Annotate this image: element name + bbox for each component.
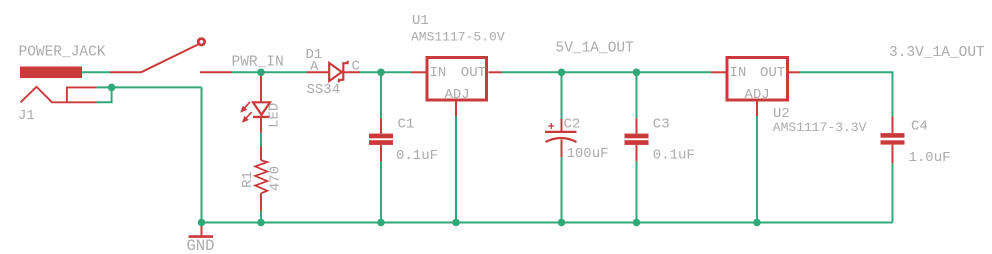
capacitor C1 plates: [369, 134, 393, 145]
capacitor C3 upper wire: [636, 72, 638, 118]
svg-text:IN: IN: [730, 65, 747, 81]
wire U2 OUT to C4: [800, 72, 893, 116]
capacitor C1 upper wire: [380, 72, 382, 118]
svg-text:U1: U1: [412, 13, 429, 29]
svg-text:OUT: OUT: [461, 65, 486, 81]
junction C3 tap: [633, 69, 641, 77]
capacitor C1 bottom pin: [380, 145, 382, 162]
junction rail R1: [257, 219, 265, 227]
wire diode to U1: [360, 71, 411, 73]
capacitor C2 upper wire: [561, 72, 563, 119]
junction C1 tap: [377, 69, 385, 77]
svg-text:470: 470: [268, 166, 284, 191]
capacitor C3 bottom pin: [636, 145, 638, 162]
svg-text:0.1uF: 0.1uF: [653, 147, 695, 163]
svg-text:AMS1117-3.3V: AMS1117-3.3V: [773, 120, 867, 135]
LED D2 cathode bar: [253, 116, 270, 118]
U2 ADJ pin stub: [756, 102, 758, 117]
svg-text:5V_1A_OUT: 5V_1A_OUT: [556, 41, 635, 57]
svg-text:A: A: [310, 59, 319, 75]
U1 IN pin stub: [411, 71, 426, 73]
svg-text:OUT: OUT: [760, 65, 785, 81]
capacitor C4 bottom pin: [892, 145, 894, 164]
capacitor C4 plates: [881, 133, 905, 145]
wire U1 OUT to U2 IN: [502, 71, 712, 73]
wire jack tip to switch: [82, 71, 110, 73]
ground symbol bar: [189, 235, 214, 238]
svg-text:1.0uF: 1.0uF: [909, 150, 951, 166]
switch S1 left pin: [110, 71, 141, 73]
diode D1 schottky bar: [339, 61, 348, 83]
junction rail GND: [198, 219, 206, 227]
capacitor C4 top pin: [892, 117, 894, 134]
svg-text:R1: R1: [240, 171, 256, 188]
junction PWR_IN node: [257, 69, 265, 77]
wire U2 ADJ to rail: [756, 116, 758, 223]
connector J1 sleeve zigzag: [21, 87, 97, 103]
U2 IN pin stub: [711, 71, 726, 73]
wire sleeve down to ground rail: [201, 87, 203, 222]
wire R1 to rail: [260, 211, 262, 222]
svg-text:GND: GND: [187, 237, 215, 254]
junction C2 tap: [558, 69, 566, 77]
svg-text:C2: C2: [564, 117, 581, 133]
junction rail C3: [633, 219, 641, 227]
capacitor C2 bottom pin: [561, 140, 563, 158]
switch S1 right pin: [200, 71, 232, 73]
ground symbol stub: [201, 223, 203, 236]
svg-text:J1: J1: [18, 108, 35, 124]
resistor R1 top pin: [260, 147, 262, 161]
svg-text:3.3V_1A_OUT: 3.3V_1A_OUT: [889, 45, 985, 61]
diode D1 anode pin: [307, 71, 331, 73]
capacitor C4 lower wire: [892, 163, 894, 222]
junction rail U2 ADJ: [753, 219, 761, 227]
wire PWR_IN net: [232, 71, 307, 73]
svg-text:100uF: 100uF: [567, 146, 609, 162]
svg-text:C: C: [352, 58, 360, 74]
capacitor C3 lower wire: [636, 161, 638, 222]
diode D1 triangle: [329, 63, 342, 81]
capacitor C2 arc plate: [546, 138, 577, 142]
svg-text:POWER_JACK: POWER_JACK: [19, 45, 106, 61]
junction rail U1 ADJ: [452, 219, 460, 227]
connector J1 POWER_JACK barrel: [20, 67, 82, 79]
wire jack sleeve net lower: [97, 87, 112, 102]
LED D2 arrow 2: [243, 112, 251, 121]
svg-text:PWR_IN: PWR_IN: [232, 54, 284, 70]
U2 OUT pin stub: [789, 71, 800, 73]
switch S1 pivot circle: [198, 39, 204, 45]
wire jack sleeve net upper: [97, 86, 202, 88]
wire LED to R1: [260, 133, 262, 147]
U1 ADJ pin stub: [455, 102, 457, 117]
svg-text:ADJ: ADJ: [445, 87, 470, 103]
capacitor C2 lower wire: [561, 157, 563, 222]
diode D1 cathode pin: [341, 71, 360, 73]
svg-text:C3: C3: [653, 117, 670, 133]
capacitor C2 top plate: [545, 131, 577, 133]
svg-text:C1: C1: [398, 117, 415, 133]
wire U1 ADJ to rail: [455, 116, 457, 223]
LED cathode pin lower: [260, 117, 262, 133]
junction rail C1: [377, 219, 385, 227]
capacitor C2 plus sign: [548, 123, 554, 129]
switch S1 blade: [141, 45, 198, 73]
junction sleeve node: [108, 84, 116, 92]
svg-text:C4: C4: [911, 118, 928, 134]
junction rail C2: [558, 219, 566, 227]
LED D2 anode pin: [260, 72, 262, 102]
U1 OUT pin stub: [489, 71, 502, 73]
capacitor C1 lower wire: [380, 161, 382, 222]
capacitor C3 top pin: [636, 118, 638, 133]
capacitor C1 top pin: [380, 118, 382, 133]
regulator U2 box: [727, 58, 788, 101]
svg-text:IN: IN: [430, 65, 447, 81]
svg-text:SS34: SS34: [307, 82, 341, 98]
capacitor C3 plates: [625, 134, 649, 145]
resistor R1 zigzag: [255, 160, 267, 193]
svg-text:AMS1117-5.0V: AMS1117-5.0V: [411, 29, 505, 44]
svg-text:LED: LED: [267, 103, 283, 128]
capacitor C2 top pin: [561, 119, 563, 131]
LED D2 triangle: [253, 102, 270, 115]
wire ground rail: [202, 222, 893, 224]
svg-text:ADJ: ADJ: [745, 87, 770, 103]
resistor R1 bottom pin: [260, 193, 262, 211]
LED D2 arrow 1: [242, 102, 250, 111]
regulator U1 box: [427, 58, 487, 101]
svg-text:0.1uF: 0.1uF: [396, 148, 438, 164]
connector J1 switch contact L: [67, 87, 97, 102]
